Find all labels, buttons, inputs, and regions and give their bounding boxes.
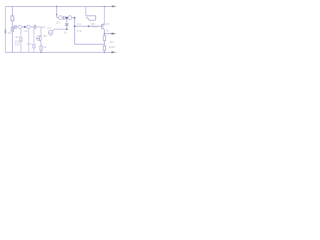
transistor Q6 arrows <box>65 23 68 26</box>
resistor R1 <box>11 16 14 21</box>
svg-text:2N: 2N <box>42 25 46 29</box>
node dot x56.7 top rail <box>56 6 58 8</box>
transistor Q1 <box>18 25 21 28</box>
wire bottom ground rail <box>5 51 117 53</box>
resistor R6 <box>20 38 22 41</box>
transistor Q8 <box>102 24 105 30</box>
wire vertical x33.9 <box>33 29 35 45</box>
transistor Q2 <box>27 25 30 28</box>
node dot wire y18 x74.6 <box>74 17 76 19</box>
terminal plus top right <box>112 6 115 8</box>
wire vertical x104 upper <box>103 6 105 24</box>
wire vertical x85.8 <box>85 6 87 16</box>
node dot x104.4 bottom rail <box>104 52 106 54</box>
svg-text:C4: C4 <box>77 22 81 26</box>
svg-text:Q6: Q6 <box>105 22 109 26</box>
svg-text:Q2: Q2 <box>24 29 28 33</box>
svg-text:Q3: Q3 <box>56 20 60 24</box>
wire vertical x21 <box>20 29 22 38</box>
transistor Q3 <box>59 16 63 20</box>
wire vertical x66.8 <box>66 18 68 29</box>
resistor R4 <box>103 36 105 41</box>
svg-text:1k: 1k <box>106 28 110 32</box>
wire vertical x74.6 <box>74 17 76 44</box>
capacitor C2 <box>34 25 36 29</box>
svg-text:0.1: 0.1 <box>47 26 52 30</box>
svg-text:100u: 100u <box>109 45 116 49</box>
svg-text:22k: 22k <box>15 43 20 47</box>
wire row y18 <box>57 17 59 19</box>
svg-text:10u: 10u <box>27 42 32 46</box>
terminal minus bottom right <box>111 51 114 53</box>
capacitor C3 <box>64 16 66 20</box>
node dot x104.4 top rail <box>104 6 106 8</box>
capacitor C6 <box>33 45 35 48</box>
battery segment on left wire <box>4 30 6 34</box>
wire bottom row y44 <box>75 43 105 45</box>
wire output row y33.6 <box>104 33 115 35</box>
resistor R2 <box>11 27 13 31</box>
wire row y29 <box>54 28 67 30</box>
wire vertical x104 lower <box>103 41 105 46</box>
node dot x56.7 y14.6 <box>56 14 58 16</box>
node dot wire y18 x66.8 <box>66 17 68 19</box>
source MIC circle <box>48 30 52 34</box>
svg-text:1k: 1k <box>43 45 47 49</box>
svg-text:4k7: 4k7 <box>110 40 115 44</box>
wire vertical x104 mid <box>103 29 105 35</box>
wire signal row y26.3 <box>75 25 102 27</box>
node dot y26.3 x88.6 <box>88 25 90 27</box>
svg-text:47k: 47k <box>77 29 82 33</box>
node dot y27 x24.7 <box>24 26 26 28</box>
transistor Q4 <box>36 36 41 41</box>
wire Q4 emitter down <box>40 41 42 46</box>
wire top supply rail <box>5 6 117 8</box>
svg-text:4k7: 4k7 <box>15 35 20 39</box>
node dot x66.8 y29.2 <box>66 28 68 30</box>
resistor R5 <box>103 46 105 50</box>
wire vertical x56.7 <box>56 6 58 18</box>
transistor Q5 <box>68 16 72 20</box>
svg-text:2k: 2k <box>64 30 68 34</box>
wire input row y27 <box>13 26 14 28</box>
svg-text:108: 108 <box>93 24 98 28</box>
node dot x104.4 output <box>104 33 106 35</box>
capacitor C1 <box>15 25 16 29</box>
wire vertical x28.7 <box>28 29 30 34</box>
wire left side <box>4 6 6 53</box>
svg-text:9V: 9V <box>8 31 12 35</box>
transistor Q7 <box>86 16 96 21</box>
node dot x74.6 y26.3 <box>74 25 76 27</box>
terminal output right <box>111 33 114 35</box>
wire to Q4 <box>36 27 41 36</box>
wire vertical branch x12 <box>11 6 13 16</box>
node dot x41 bottom rail <box>40 52 42 54</box>
resistor R3 <box>40 46 42 50</box>
